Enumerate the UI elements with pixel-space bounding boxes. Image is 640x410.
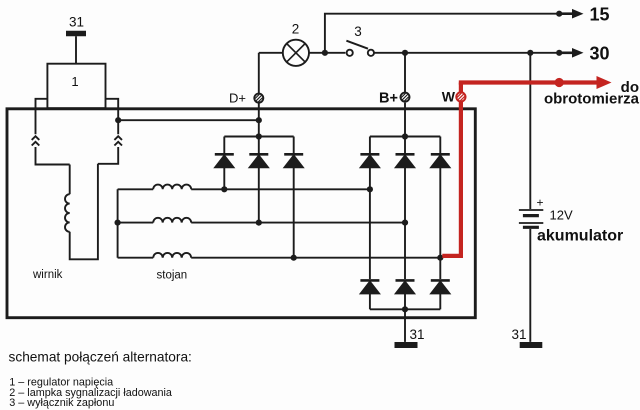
exciter diode bus <box>224 136 293 138</box>
lamp H1 (2) <box>283 40 309 66</box>
wire W to obrotomierz (red) <box>459 80 597 84</box>
rectifier diode D4 <box>360 137 379 190</box>
terminal B+ <box>401 93 410 102</box>
svg-text:15: 15 <box>590 5 610 25</box>
rectifier diode D8 <box>396 223 415 310</box>
brush right (foot + contact arrows) <box>98 99 122 164</box>
rectifier diode D6 <box>431 137 450 258</box>
svg-text:30: 30 <box>590 44 610 64</box>
node field brush / D+ wire <box>115 117 121 123</box>
ground wire (alternator) <box>404 309 406 342</box>
rectifier diode D7 <box>360 189 379 309</box>
node 15 arrow dot <box>556 11 562 17</box>
terminal W <box>456 92 465 101</box>
exciter diode D3 <box>284 137 303 258</box>
wire W vertical and phase3 tap (red) <box>442 83 461 256</box>
svg-text:31: 31 <box>69 15 84 30</box>
rectifier diode D9 <box>431 258 450 310</box>
stator phase 1 winding (stojan) <box>118 185 370 190</box>
node phase2 rectifier tap <box>402 220 408 226</box>
rotor winding L1 (wirnik) <box>65 164 98 259</box>
wire node A to 15 <box>325 14 559 53</box>
node phase2 exciter tap <box>256 220 262 226</box>
node star point <box>115 220 121 226</box>
main rectifier bottom bus <box>370 308 440 310</box>
node 30 arrow dot <box>556 50 562 56</box>
terminal D+ <box>254 94 263 103</box>
node phase3 exciter tap <box>291 255 297 261</box>
wire B+ column <box>404 53 406 137</box>
wire D+ to field brush <box>118 119 259 121</box>
node phase3 rectifier tap / W tap <box>437 255 443 261</box>
exciter diode D1 <box>215 137 234 190</box>
regulator U1 box <box>47 64 105 108</box>
node phase1 exciter tap <box>221 186 227 192</box>
wire D+ column <box>258 103 260 137</box>
alternator case <box>7 109 475 318</box>
svg-text:obrotomierza: obrotomierza <box>544 91 640 108</box>
svg-text:akumulator: akumulator <box>537 228 623 245</box>
node exciter bus center <box>256 133 262 139</box>
node A (lamp junction) <box>322 50 328 56</box>
main rectifier top bus <box>370 136 440 138</box>
wire switch to 30 <box>374 52 559 54</box>
svg-text:3: 3 <box>354 24 362 39</box>
svg-text:31: 31 <box>512 327 527 342</box>
stator phase 3 winding <box>118 253 441 258</box>
svg-text:3 – wyłącznik zapłonu: 3 – wyłącznik zapłonu <box>9 397 114 409</box>
node phase1 rectifier tap <box>367 186 373 192</box>
node B+ / 30 junction <box>402 50 408 56</box>
rectifier diode D5 <box>396 137 415 223</box>
ground 31 (battery) <box>520 342 543 348</box>
svg-text:+: + <box>537 196 544 210</box>
terminal arrow do obrotomierza (red) <box>597 76 612 89</box>
svg-text:B+: B+ <box>379 91 398 107</box>
ground 31 (alternator) <box>395 342 418 348</box>
terminal arrow 15 <box>559 9 583 19</box>
svg-text:2: 2 <box>292 22 300 37</box>
svg-text:wirnik: wirnik <box>32 269 63 281</box>
svg-text:12V: 12V <box>550 208 573 223</box>
svg-text:D+: D+ <box>229 91 246 106</box>
brush left (foot + contact arrows) <box>32 99 70 165</box>
node B+ bus center <box>402 133 408 139</box>
switch S1 (3) <box>346 41 374 56</box>
node rectifier minus <box>402 306 408 312</box>
wire D+ to lamp <box>259 52 283 54</box>
svg-text:W: W <box>442 89 456 105</box>
svg-text:stojan: stojan <box>157 270 188 282</box>
exciter diode D2 <box>249 137 268 223</box>
svg-text:schemat połączeń alternatora:: schemat połączeń alternatora: <box>9 349 192 364</box>
node battery / 30 junction <box>527 50 533 56</box>
ground 31 (regulator) <box>66 34 86 64</box>
wire battery to ground <box>529 229 531 342</box>
svg-text:1: 1 <box>71 74 78 89</box>
red tachometer wire W <box>442 76 611 256</box>
wire battery feed <box>529 53 531 209</box>
node tachometer dot (red) <box>555 78 564 87</box>
wire lamp to node A <box>309 52 345 54</box>
battery BT1 <box>519 210 543 227</box>
svg-text:31: 31 <box>410 327 425 342</box>
wire D+ terminal riser <box>258 53 260 95</box>
stator phase 2 winding <box>118 218 405 223</box>
terminal arrow 30 <box>559 48 583 58</box>
node D+ column / field wire <box>256 117 262 123</box>
stator star-point bus <box>117 189 119 257</box>
